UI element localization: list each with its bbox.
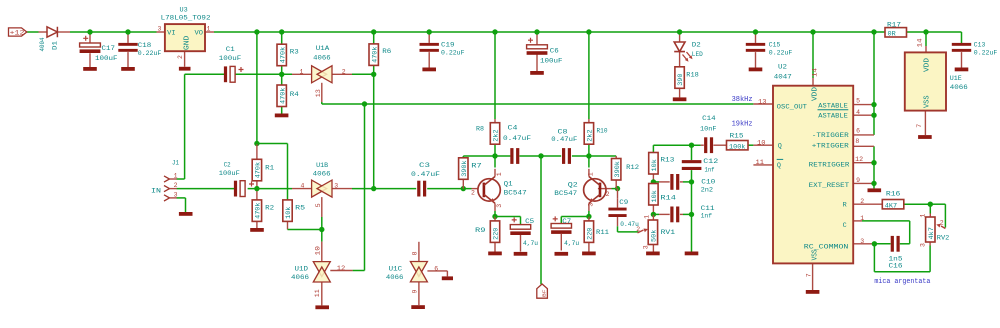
svg-text:2: 2 xyxy=(860,198,864,205)
svg-text:4047: 4047 xyxy=(774,73,792,81)
svg-text:C4: C4 xyxy=(508,125,518,133)
svg-text:3: 3 xyxy=(587,203,594,207)
svg-text:0.22uF: 0.22uF xyxy=(769,49,793,57)
svg-text:1: 1 xyxy=(174,172,178,179)
svg-text:RV2: RV2 xyxy=(937,234,950,242)
svg-text:470k: 470k xyxy=(255,202,262,219)
svg-text:VSS: VSS xyxy=(811,249,819,260)
svg-text:1: 1 xyxy=(207,25,211,32)
svg-text:0.47uF: 0.47uF xyxy=(551,136,577,144)
svg-text:OSC_OUT: OSC_OUT xyxy=(777,103,807,111)
svg-text:14: 14 xyxy=(812,68,819,77)
svg-text:R4: R4 xyxy=(290,91,299,99)
svg-text:220: 220 xyxy=(493,227,500,240)
svg-text:1: 1 xyxy=(860,215,864,222)
svg-text:C17: C17 xyxy=(102,45,116,53)
svg-text:Q: Q xyxy=(777,162,781,170)
svg-text:19kHz: 19kHz xyxy=(732,120,753,128)
svg-text:100k: 100k xyxy=(729,143,746,150)
svg-text:R2: R2 xyxy=(265,204,274,212)
svg-text:IN: IN xyxy=(151,187,161,195)
svg-text:D2: D2 xyxy=(692,41,701,49)
svg-text:EXT_RESET: EXT_RESET xyxy=(809,182,850,190)
svg-text:C3: C3 xyxy=(419,162,430,170)
svg-text:ASTABLE: ASTABLE xyxy=(818,112,848,120)
svg-text:R9: R9 xyxy=(475,227,486,235)
svg-text:4066: 4066 xyxy=(386,274,404,282)
svg-text:C2: C2 xyxy=(224,161,231,169)
svg-text:470k: 470k xyxy=(279,87,286,104)
svg-text:BC547: BC547 xyxy=(554,190,577,198)
svg-text:C15: C15 xyxy=(769,41,781,49)
svg-text:GND: GND xyxy=(184,36,192,51)
svg-text:C: C xyxy=(843,222,847,230)
svg-text:390k: 390k xyxy=(614,161,621,178)
svg-text:100uF: 100uF xyxy=(540,57,563,65)
svg-text:Q2: Q2 xyxy=(568,181,578,189)
svg-text:C8: C8 xyxy=(558,128,568,136)
svg-text:9: 9 xyxy=(411,290,418,294)
svg-text:100uF: 100uF xyxy=(219,170,240,178)
svg-text:R10: R10 xyxy=(597,127,608,135)
svg-text:VO: VO xyxy=(195,30,204,38)
svg-text:10k: 10k xyxy=(651,159,658,172)
svg-text:2: 2 xyxy=(471,189,475,196)
svg-text:2k2: 2k2 xyxy=(493,129,500,142)
svg-text:470k: 470k xyxy=(371,46,378,63)
svg-text:+12: +12 xyxy=(10,30,25,37)
svg-text:1: 1 xyxy=(920,214,927,218)
svg-text:2: 2 xyxy=(636,226,640,233)
svg-text:Q: Q xyxy=(778,142,782,150)
svg-text:R8: R8 xyxy=(476,126,484,134)
svg-text:6: 6 xyxy=(434,265,438,272)
svg-text:390k: 390k xyxy=(461,160,468,177)
svg-text:U1A: U1A xyxy=(316,45,331,53)
svg-text:0.47uF: 0.47uF xyxy=(411,171,440,179)
svg-text:11: 11 xyxy=(756,159,765,166)
svg-text:6: 6 xyxy=(856,127,860,134)
svg-text:-TRIGGER: -TRIGGER xyxy=(812,132,849,140)
svg-text:4,7u: 4,7u xyxy=(564,240,579,248)
svg-text:220: 220 xyxy=(587,227,594,240)
svg-text:5: 5 xyxy=(315,203,322,207)
svg-text:0.22uF: 0.22uF xyxy=(441,49,465,57)
svg-text:2: 2 xyxy=(606,191,610,198)
svg-text:4004: 4004 xyxy=(39,38,47,52)
svg-text:1: 1 xyxy=(644,215,651,219)
svg-text:D1: D1 xyxy=(52,41,60,50)
svg-text:7: 7 xyxy=(805,273,812,277)
svg-text:BF: BF xyxy=(542,289,548,297)
svg-text:VI: VI xyxy=(167,30,176,38)
svg-text:U1D: U1D xyxy=(295,266,309,274)
svg-text:C9: C9 xyxy=(619,199,628,207)
svg-text:VDD: VDD xyxy=(811,87,819,101)
svg-text:4066: 4066 xyxy=(950,84,968,92)
svg-text:R18: R18 xyxy=(686,71,699,79)
svg-text:C13: C13 xyxy=(974,41,986,49)
svg-text:11: 11 xyxy=(314,289,321,297)
svg-text:3: 3 xyxy=(496,204,503,208)
svg-text:10: 10 xyxy=(757,140,766,147)
svg-text:+TRIGGER: +TRIGGER xyxy=(812,143,849,151)
svg-text:R1: R1 xyxy=(265,164,274,172)
svg-text:R13: R13 xyxy=(660,156,674,164)
svg-text:U3: U3 xyxy=(180,7,188,15)
svg-text:4: 4 xyxy=(301,183,305,190)
svg-text:Q1: Q1 xyxy=(504,181,513,189)
svg-text:RV1: RV1 xyxy=(661,229,676,237)
svg-text:LED: LED xyxy=(692,51,703,59)
svg-text:4066: 4066 xyxy=(313,54,331,62)
svg-text:390: 390 xyxy=(677,73,684,86)
svg-text:C19: C19 xyxy=(441,41,455,49)
svg-text:4k7: 4k7 xyxy=(928,227,935,240)
svg-text:R6: R6 xyxy=(382,48,391,56)
svg-text:1: 1 xyxy=(496,172,503,176)
svg-text:1nf: 1nf xyxy=(701,212,713,220)
svg-text:0.22uF: 0.22uF xyxy=(974,49,998,57)
svg-text:14: 14 xyxy=(916,38,923,47)
svg-text:5: 5 xyxy=(856,98,860,105)
svg-text:470k: 470k xyxy=(255,162,262,179)
svg-text:C12: C12 xyxy=(703,158,718,166)
svg-text:0R: 0R xyxy=(888,30,896,37)
svg-text:U1B: U1B xyxy=(316,162,328,170)
svg-text:12: 12 xyxy=(337,265,346,272)
svg-text:2: 2 xyxy=(177,55,184,59)
svg-text:2: 2 xyxy=(174,182,178,189)
svg-text:2: 2 xyxy=(342,68,346,75)
svg-text:R17: R17 xyxy=(887,21,901,29)
svg-text:3: 3 xyxy=(334,183,338,190)
svg-text:1nf: 1nf xyxy=(705,166,715,174)
svg-text:C14: C14 xyxy=(702,115,716,123)
svg-text:U2: U2 xyxy=(778,64,787,72)
svg-text:8: 8 xyxy=(855,138,859,145)
svg-text:3: 3 xyxy=(920,243,927,247)
svg-text:38kHz: 38kHz xyxy=(732,96,753,104)
svg-text:50k: 50k xyxy=(651,229,658,242)
svg-text:BC547: BC547 xyxy=(504,190,527,198)
svg-text:C16: C16 xyxy=(889,262,903,270)
svg-text:10: 10 xyxy=(314,246,321,256)
svg-text:4066: 4066 xyxy=(291,274,309,282)
svg-text:3: 3 xyxy=(860,238,864,245)
svg-text:R12: R12 xyxy=(626,164,639,172)
svg-text:C7: C7 xyxy=(562,218,571,226)
svg-text:4: 4 xyxy=(856,109,860,116)
svg-text:10k: 10k xyxy=(285,206,292,219)
svg-text:470k: 470k xyxy=(279,47,286,64)
svg-text:C5: C5 xyxy=(525,218,534,226)
svg-text:C10: C10 xyxy=(701,179,715,187)
svg-text:2n2: 2n2 xyxy=(701,187,714,195)
svg-text:L78L05_TO92: L78L05_TO92 xyxy=(161,15,211,23)
svg-text:4,7u: 4,7u xyxy=(523,240,538,248)
svg-text:U1C: U1C xyxy=(389,266,403,274)
svg-text:U1E: U1E xyxy=(950,75,962,83)
svg-text:VSS: VSS xyxy=(924,96,932,109)
svg-text:C18: C18 xyxy=(138,42,152,50)
svg-text:4K7: 4K7 xyxy=(885,202,898,209)
svg-text:8: 8 xyxy=(411,251,418,255)
svg-text:3: 3 xyxy=(174,191,178,198)
svg-text:10k: 10k xyxy=(651,190,658,203)
svg-text:13: 13 xyxy=(315,89,322,97)
svg-text:1: 1 xyxy=(587,172,594,176)
svg-text:R5: R5 xyxy=(295,204,305,212)
svg-text:4066: 4066 xyxy=(313,170,331,178)
svg-text:R14: R14 xyxy=(660,195,676,203)
svg-text:mica argentata: mica argentata xyxy=(874,278,930,286)
svg-text:3: 3 xyxy=(158,25,162,32)
svg-text:7: 7 xyxy=(916,124,923,128)
svg-text:VDD: VDD xyxy=(924,58,932,72)
svg-text:13: 13 xyxy=(758,98,767,105)
svg-text:100uF: 100uF xyxy=(219,55,242,63)
svg-text:RETRIGGER: RETRIGGER xyxy=(809,162,850,170)
svg-text:R15: R15 xyxy=(730,132,744,140)
svg-text:0.47uF: 0.47uF xyxy=(503,135,531,143)
svg-text:2: 2 xyxy=(940,220,944,227)
svg-text:12: 12 xyxy=(855,156,863,163)
svg-text:3: 3 xyxy=(643,245,650,249)
svg-text:C1: C1 xyxy=(226,46,235,54)
svg-text:9: 9 xyxy=(856,177,860,184)
svg-text:R11: R11 xyxy=(596,229,609,237)
svg-text:R7: R7 xyxy=(471,162,482,170)
svg-text:1: 1 xyxy=(300,68,304,75)
svg-text:2k2: 2k2 xyxy=(587,129,594,142)
svg-text:R: R xyxy=(843,202,847,210)
svg-text:10nF: 10nF xyxy=(700,126,717,134)
svg-text:R3: R3 xyxy=(290,49,299,57)
svg-text:C6: C6 xyxy=(550,47,559,55)
svg-text:100uF: 100uF xyxy=(95,55,118,63)
svg-text:R16: R16 xyxy=(886,191,901,199)
svg-text:J1: J1 xyxy=(172,159,179,167)
svg-text:0.22uF: 0.22uF xyxy=(138,50,162,58)
